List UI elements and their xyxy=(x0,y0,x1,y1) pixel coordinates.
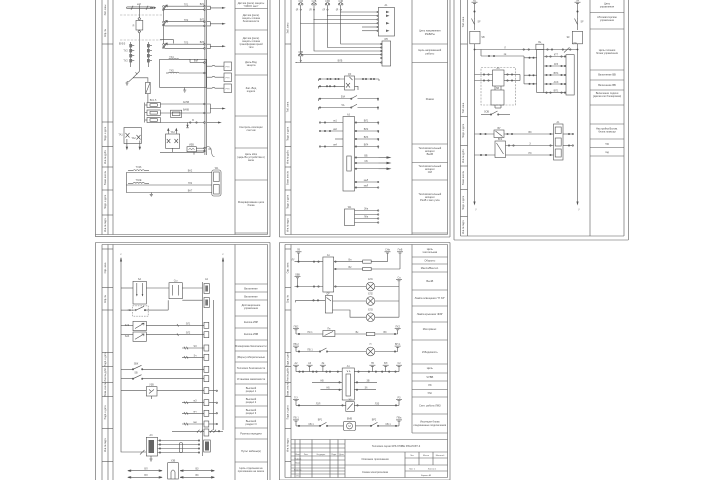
svg-text:ВР1: ВР1 xyxy=(318,418,323,421)
ladder left wire 1 xyxy=(524,57,537,58)
contactor QF xyxy=(345,76,355,90)
svg-text:с: с xyxy=(222,253,224,256)
svg-text:ТА2: ТА2 xyxy=(131,137,136,140)
dimension arrows row1 xyxy=(128,470,215,472)
arrow right rail end xyxy=(576,202,578,206)
svg-text:Тепловоз серии КРЗ-670ВЕ РЗА-: Тепловоз серии КРЗ-670ВЕ РЗА-РКЗТ-3 xyxy=(372,444,421,448)
svg-text:Цепь напряженной: Цепь напряженной xyxy=(418,48,441,52)
ladder rung VP1 xyxy=(546,92,566,93)
wire F5 to W5 xyxy=(296,61,381,62)
svg-text:ЗВ: ЗВ xyxy=(366,379,369,382)
svg-text:Кнопка ИЗР: Кнопка ИЗР xyxy=(244,320,259,324)
svg-text:Вц: Вц xyxy=(538,41,542,44)
switch SA3 box1 xyxy=(133,321,146,330)
svg-text:Инв.№ подл.: Инв.№ подл. xyxy=(286,218,289,233)
ladder rung AT3 xyxy=(544,65,566,66)
pin blocks column xyxy=(204,322,209,427)
svg-text:ТЛ2: ТЛ2 xyxy=(184,19,189,22)
A3 right wire 1 xyxy=(355,122,379,125)
row8 wires xyxy=(320,389,376,390)
breaker F2 xyxy=(312,3,317,11)
node diamond bottom xyxy=(138,30,141,33)
svg-text:Сигн. работа ЛМЗ: Сигн. работа ЛМЗ xyxy=(419,404,441,408)
module A4 xyxy=(493,70,505,86)
wire VZ to A1 xyxy=(504,133,554,134)
svg-text:R: R xyxy=(133,25,135,28)
svg-text:Лист: Лист xyxy=(304,454,308,456)
svg-text:(Я: (Я xyxy=(336,9,339,12)
svg-text:ЛЗЛ: ЛЗЛ xyxy=(316,402,321,405)
svg-text:Таб. зона: Таб. зона xyxy=(462,102,465,113)
svg-text:Установка зависимости: Установка зависимости xyxy=(237,377,266,381)
right rail xyxy=(222,258,224,430)
sheet 5 title block xyxy=(291,440,448,478)
sheet 4 right label column xyxy=(235,245,268,480)
left rail arrow up xyxy=(120,257,122,262)
relay VU2 xyxy=(495,141,506,158)
connector W5 xyxy=(381,41,391,66)
svg-text:SА3: SА3 xyxy=(125,335,130,338)
svg-text:А4: А4 xyxy=(497,67,501,70)
switch QS1 xyxy=(133,72,139,78)
row3 wire xyxy=(295,286,367,287)
A3 left wire 4 xyxy=(319,146,343,147)
svg-text:ВЛ2: ВЛ2 xyxy=(200,19,205,22)
svg-text:Тепловоз безопасности: Тепловоз безопасности xyxy=(237,366,266,370)
svg-text:С9В: С9В xyxy=(298,51,303,54)
wire right rail xyxy=(577,44,579,204)
svg-text:W1: W1 xyxy=(348,206,352,209)
pin right wires xyxy=(209,390,218,425)
strip out arrow 1 xyxy=(207,6,226,9)
svg-text:(двигатели блокировки): (двигатели блокировки) xyxy=(593,94,621,98)
svg-text:Спр. зона: Спр. зона xyxy=(286,262,289,273)
svg-text:С4В: С4В xyxy=(338,0,343,3)
svg-text:(Я: (Я xyxy=(309,9,312,12)
svg-text:А3: А3 xyxy=(150,434,154,437)
svg-text:Лист 1: Лист 1 xyxy=(409,469,416,471)
svg-text:Включение: Включение xyxy=(244,295,258,299)
CT TA3 xyxy=(166,129,180,149)
svg-text:Формат А3: Формат А3 xyxy=(421,474,432,477)
wire SA row2 xyxy=(182,299,202,301)
strip out arrow 4 xyxy=(207,104,226,113)
relay RTL1 xyxy=(207,62,232,71)
wire QF row right xyxy=(355,78,380,81)
svg-text:Инв.№ дубл.: Инв.№ дубл. xyxy=(104,367,107,381)
row5 switch and lamp P xyxy=(296,347,398,356)
row10 motor VMV xyxy=(296,421,399,430)
svg-text:Убл: Убл xyxy=(428,391,433,395)
svg-text:ТЛ1: ТЛ1 xyxy=(184,3,189,6)
sheet 4 margin labels xyxy=(104,262,107,452)
svg-text:Подп. и дата: Подп. и дата xyxy=(104,405,107,420)
svg-text:мч: мч xyxy=(194,410,198,413)
wire F3 to A1 xyxy=(327,10,378,16)
relay RTL2 xyxy=(207,73,232,82)
switch row xyxy=(121,300,168,316)
svg-text:ВЛ3: ВЛ3 xyxy=(364,136,369,139)
svg-text:Инв.№ подл.: Инв.№ подл. xyxy=(104,218,107,233)
wire stubs to A1 lower pins xyxy=(362,27,378,31)
wire xyxy=(147,94,149,103)
sheet 1 right label column xyxy=(235,0,268,235)
svg-text:ТХ26: ТХ26 xyxy=(136,166,142,169)
connector right spine xyxy=(212,300,214,430)
module A1 xyxy=(377,8,395,37)
svg-text:работы: работы xyxy=(425,52,434,56)
svg-text:ВЛ4: ВЛ4 xyxy=(364,144,369,147)
wire rail to SA xyxy=(121,287,133,289)
terminal PnV xyxy=(397,252,403,269)
svg-text:Пров.: Пров. xyxy=(295,463,301,465)
svg-text:Розетка передачи: Розетка передачи xyxy=(240,432,262,436)
strip out arrow 3 xyxy=(207,44,226,48)
wire row S4 xyxy=(182,356,204,359)
svg-text:QF: QF xyxy=(326,292,330,295)
fuse chain TV2 xyxy=(147,42,152,67)
ladder rung VP4 xyxy=(544,74,566,75)
svg-text:Масса: Масса xyxy=(423,455,430,457)
svg-text:М: М xyxy=(348,424,351,428)
svg-text:ЛЗ: ЛЗ xyxy=(428,383,432,387)
svg-text:ПВ.1: ПВ.1 xyxy=(307,348,313,351)
svg-text:35кВ/Ры: 35кВ/Ры xyxy=(425,32,435,36)
svg-text:Описание приложения: Описание приложения xyxy=(361,457,389,461)
svg-text:(Я: (Я xyxy=(296,9,299,12)
wire drop2 xyxy=(328,16,382,48)
svg-text:Режим: Режим xyxy=(426,97,434,101)
svg-text:Зб: Зб xyxy=(365,387,368,390)
svg-text:СНа: СНа xyxy=(385,249,390,252)
svg-text:защита: защита xyxy=(247,64,256,67)
sheet 1 margin labels xyxy=(104,4,107,232)
svg-text:издели: издели xyxy=(247,90,256,93)
terminal RZ xyxy=(396,400,402,406)
svg-text:А2: А2 xyxy=(295,362,299,365)
ground xyxy=(125,82,128,86)
strip out arrow 2 xyxy=(207,22,226,26)
inline filter capsule xyxy=(179,443,182,453)
svg-text:год: год xyxy=(605,143,609,146)
svg-text:ВУ: ВУ xyxy=(497,127,501,130)
svg-text:SЛ2: SЛ2 xyxy=(186,332,191,335)
W1 wire 4 xyxy=(355,222,379,223)
svg-text:В: В xyxy=(192,119,194,122)
svg-text:№ докум.: № докум. xyxy=(317,453,326,456)
svg-text:Заб. зоны: Заб. зоны xyxy=(104,4,107,15)
svg-text:ВБ: ВБ xyxy=(364,155,368,158)
svg-text:ВП1: ВП1 xyxy=(554,90,559,93)
row VU wire xyxy=(475,133,495,134)
svg-text:ВЛБ: ВЛБ xyxy=(338,60,343,63)
dim labels row1 xyxy=(144,467,199,470)
svg-text:ВзЛ: ВзЛ xyxy=(194,60,199,63)
switch SVK xyxy=(121,365,204,370)
switch SF2 xyxy=(575,18,578,24)
svg-text:ВМВ: ВМВ xyxy=(347,418,353,421)
CT group T3 xyxy=(163,43,206,49)
svg-text:А3: А3 xyxy=(308,362,312,365)
svg-text:ЕЛ1: ЕЛ1 xyxy=(368,278,373,281)
svg-text:ВП4: ВП4 xyxy=(554,72,559,75)
svg-text:ЧУВВ: ЧУВВ xyxy=(426,375,433,379)
svg-text:Пульт кабины(а): Пульт кабины(а) xyxy=(241,449,261,453)
CT group T2 xyxy=(163,21,206,27)
dashed bus line 2 xyxy=(120,39,162,41)
svg-text:управление: управление xyxy=(244,307,259,310)
wire drop3 xyxy=(314,20,382,52)
svg-text:Инв.№ дубл.: Инв.№ дубл. xyxy=(104,150,107,164)
svg-text:ВЛ3: ВЛ3 xyxy=(200,41,205,44)
component I5V xyxy=(187,147,205,155)
sub bus xyxy=(481,50,524,84)
W1 wire 1 xyxy=(355,208,379,212)
row2 resistor V2 xyxy=(334,267,400,270)
sheet 4 content xyxy=(120,253,224,479)
svg-text:И.Видимость: И.Видимость xyxy=(422,350,438,354)
svg-text:Включение ВВ: Включение ВВ xyxy=(598,83,616,87)
svg-text:раздел 2: раздел 2 xyxy=(246,400,257,404)
A3 right wire 2 xyxy=(355,130,379,133)
svg-text:УЗВ: УЗВ xyxy=(149,384,154,387)
svg-text:РЗ: РЗ xyxy=(529,152,533,155)
wire SA to Csh xyxy=(146,287,169,289)
svg-text:SА: SА xyxy=(138,278,142,281)
terminal Sa xyxy=(396,280,402,287)
svg-text:ВЛ1: ВЛ1 xyxy=(364,120,369,123)
svg-text:Лампа освещения "П ХЗ": Лампа освещения "П ХЗ" xyxy=(415,296,445,300)
connector W1 xyxy=(212,170,221,196)
wire UZV row xyxy=(121,391,204,399)
fuse chain TV1 xyxy=(129,42,134,67)
svg-text:ПВ.1: ПВ.1 xyxy=(293,417,299,420)
svg-text:АТЗ: АТЗ xyxy=(554,63,559,66)
svg-text:С1В: С1В xyxy=(298,0,303,3)
svg-text:SЛ1: SЛ1 xyxy=(186,322,191,325)
sheet 2 margin labels xyxy=(286,22,289,232)
hatch row xyxy=(172,429,223,436)
svg-text:с: с xyxy=(120,253,122,256)
terminals row6 left xyxy=(293,365,326,371)
svg-text:Схема электрическая: Схема электрическая xyxy=(362,470,389,474)
svg-text:Л: Л xyxy=(504,46,506,49)
A1 right wires sheet3 xyxy=(563,133,574,146)
switch SV xyxy=(121,375,204,380)
module A1 bottom xyxy=(342,368,354,400)
terminal PV.2 xyxy=(293,346,299,351)
svg-text:Л9: Л9 xyxy=(297,249,301,252)
terminal PK2 xyxy=(395,329,401,334)
svg-text:А1: А1 xyxy=(347,365,351,368)
svg-text:АСЗ: АСЗ xyxy=(554,81,559,84)
svg-text:ВалВ: ВалВ xyxy=(427,152,434,156)
svg-text:РЗ: РЗ xyxy=(398,396,402,399)
wire CT chain xyxy=(160,10,174,44)
wire Csh to A2 xyxy=(182,287,202,289)
svg-text:Включение ВВ: Включение ВВ xyxy=(598,73,616,77)
wire row S3 xyxy=(182,347,204,350)
svg-text:безопасности: безопасности xyxy=(243,19,260,23)
row7 wires xyxy=(312,382,377,383)
svg-text:ТХ4: ТХ4 xyxy=(169,56,174,59)
svg-text:Изоляция блока: Изоляция блока xyxy=(420,420,440,424)
svg-text:НБ: НБ xyxy=(326,387,330,390)
svg-text:управления: управления xyxy=(600,6,615,9)
svg-text:Подп. и дата: Подп. и дата xyxy=(286,352,289,367)
wire F1 to A1 xyxy=(300,10,377,24)
svg-text:SВ: SВ xyxy=(481,36,485,39)
block EK right xyxy=(572,31,582,44)
svg-text:Сш: Сш xyxy=(174,280,178,283)
wire F4 to A1 xyxy=(340,10,377,12)
wire AC5V xyxy=(160,103,205,105)
fuse F1 xyxy=(146,82,151,93)
svg-text:ПВ.2: ПВ.2 xyxy=(293,343,299,346)
svg-text:ТУ2: ТУ2 xyxy=(123,50,128,53)
svg-text:ВЛ: ВЛ xyxy=(384,362,388,365)
svg-text:НВ: НВ xyxy=(320,379,324,382)
svg-text:Са: Са xyxy=(397,276,401,279)
svg-text:раздел N: раздел N xyxy=(246,422,257,426)
svg-text:ВЗ: ВЗ xyxy=(529,131,533,134)
A4 right wires xyxy=(504,74,520,81)
svg-text:SЗ: SЗ xyxy=(193,345,197,348)
svg-text:Спр. №: Спр. № xyxy=(104,294,107,303)
svg-text:Подп. и дата: Подп. и дата xyxy=(104,126,107,141)
busbar XT xyxy=(127,5,156,10)
wire B xyxy=(160,122,205,128)
wire SA3-2 to pin xyxy=(121,333,204,336)
svg-text:ВР2: ВР2 xyxy=(372,418,377,421)
wire main bus xyxy=(138,9,140,18)
wire VzL xyxy=(190,59,205,63)
svg-text:Инв.№ дубл.: Инв.№ дубл. xyxy=(462,149,465,163)
W1 wire 3 xyxy=(355,216,379,220)
svg-text:ПВ2: ПВ2 xyxy=(294,325,299,328)
svg-text:А1: А1 xyxy=(557,121,561,124)
svg-text:Подп. и дата: Подп. и дата xyxy=(286,126,289,141)
module A3 sheet4 xyxy=(146,437,157,456)
svg-text:SВ: SВ xyxy=(496,87,500,90)
sheet 2 content xyxy=(295,0,394,225)
sheet 5 right label column xyxy=(412,245,448,434)
CT pair TA1 TA2 xyxy=(124,128,141,150)
svg-text:год: год xyxy=(605,151,609,154)
svg-text:QF: QF xyxy=(348,73,352,76)
svg-text:SВ: SВ xyxy=(134,372,138,375)
cable loop xyxy=(204,147,215,157)
svg-text:блока управления: блока управления xyxy=(596,51,618,55)
wire row 50A xyxy=(319,96,379,102)
connector strip pin labels xyxy=(200,3,230,151)
svg-text:РТЛ: РТЛ xyxy=(226,66,230,68)
svg-text:Изм: Изм xyxy=(296,454,300,456)
svg-text:Спр. №: Спр. № xyxy=(104,28,107,37)
module A1 sheet3 xyxy=(554,124,564,160)
terminal A4 right xyxy=(575,2,581,18)
svg-text:Цепь напряжения: Цепь напряжения xyxy=(419,29,441,33)
svg-text:ЛЗЗ: ЛЗЗ xyxy=(375,402,380,405)
svg-text:(Меры) избирательные: (Меры) избирательные xyxy=(237,355,265,359)
svg-text:З: З xyxy=(529,142,531,145)
A3 bottom wire 2 xyxy=(355,187,379,188)
svg-text:Подп. и дата: Подп. и дата xyxy=(462,123,465,138)
wires lower group xyxy=(126,173,212,195)
svg-text:Взам. инв.№: Взам. инв.№ xyxy=(286,170,289,185)
svg-text:Листов 1: Листов 1 xyxy=(428,469,437,471)
sheet 3 margin labels xyxy=(462,16,465,234)
svg-text:АС5В: АС5В xyxy=(183,101,190,104)
breaker F3 xyxy=(325,3,330,11)
svg-text:SF: SF xyxy=(580,21,584,24)
sheet 2 right label column xyxy=(412,0,448,235)
svg-text:Лña: Лña xyxy=(364,216,369,219)
filter UZV xyxy=(146,387,157,396)
svg-text:П: П xyxy=(370,343,372,346)
svg-text:ВУ2: ВУ2 xyxy=(498,138,503,141)
sheet 3 content xyxy=(470,0,584,211)
wire F2 to A1 xyxy=(313,10,377,20)
svg-text:Таб. зона: Таб. зона xyxy=(462,16,465,27)
svg-text:мЗ: мЗ xyxy=(193,400,197,403)
svg-text:Взам. инв.№: Взам. инв.№ xyxy=(462,170,465,185)
socket XA1 xyxy=(168,463,179,479)
wire RZ to A1 xyxy=(475,154,554,155)
relay collector box xyxy=(566,55,574,95)
svg-text:ПВа: ПВа xyxy=(397,417,402,420)
svg-text:ГЛ2: ГЛ2 xyxy=(188,182,193,185)
transformer TX26 xyxy=(128,169,149,172)
svg-text:ВЛ: ВЛ xyxy=(144,467,148,470)
wire xyxy=(577,25,579,31)
A3 bottom wire 1 xyxy=(355,181,379,182)
A3 right wire 3 xyxy=(355,138,379,141)
svg-text:СМ: СМ xyxy=(428,170,432,174)
sheet 4 frame xyxy=(96,243,271,480)
svg-text:Инв.№ подл.: Инв.№ подл. xyxy=(104,438,107,453)
breaker F5 xyxy=(298,54,303,62)
svg-text:Подп.: Подп. xyxy=(331,454,337,456)
svg-text:W1: W1 xyxy=(215,167,219,170)
svg-text:Включение: Включение xyxy=(244,287,258,291)
terminal PV.1b xyxy=(293,420,299,426)
svg-text:ик1: ик1 xyxy=(333,120,337,123)
wire to ground xyxy=(127,78,133,82)
terminal VP.1 xyxy=(395,346,401,351)
svg-text:счетчик: счетчик xyxy=(246,129,256,132)
terminal L9 xyxy=(296,252,302,262)
relay RTL3 xyxy=(207,84,232,93)
svg-text:текотельная: текотельная xyxy=(422,251,437,254)
svg-text:ик4: ик4 xyxy=(333,144,337,147)
svg-text:Кнопка ИЗВ: Кнопка ИЗВ xyxy=(244,332,259,336)
svg-text:СБ: СБ xyxy=(364,160,368,163)
sheet 5 content xyxy=(291,249,403,431)
svg-text:Подп. и дата: Подп. и дата xyxy=(104,352,107,367)
svg-text:ТУ2: ТУ2 xyxy=(123,60,128,63)
svg-text:ВЗ: ВЗ xyxy=(384,331,388,334)
svg-text:Инв.№ дубл.: Инв.№ дубл. xyxy=(286,150,289,164)
svg-text:(Я: (Я xyxy=(323,9,326,12)
svg-text:Цепь: Цепь xyxy=(427,366,434,370)
svg-text:SВВ: SВВ xyxy=(295,273,300,276)
svg-text:Подп. и дата: Подп. и дата xyxy=(286,405,289,420)
svg-text:Масло/Вентил.: Масло/Вентил. xyxy=(421,266,439,270)
block Csh xyxy=(169,283,182,299)
svg-text:ВЛ2: ВЛ2 xyxy=(364,128,369,131)
svg-text:РТЛ: РТЛ xyxy=(226,77,230,79)
